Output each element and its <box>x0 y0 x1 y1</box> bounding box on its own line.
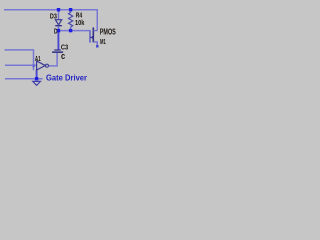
terminal dot source <box>96 45 98 47</box>
op-amp A1 triangle <box>37 61 46 70</box>
junction dot top-left <box>57 8 60 11</box>
junction dot top-right <box>69 8 72 11</box>
wire driver output to C3 bottom <box>49 53 57 66</box>
wire top rail <box>4 9 98 11</box>
wire drain vertical <box>96 10 98 31</box>
wire gate row <box>59 30 91 32</box>
wire left input 2 <box>5 64 37 66</box>
svg-text:D3: D3 <box>50 11 57 20</box>
svg-text:D: D <box>54 26 58 35</box>
diode D3 <box>55 20 61 25</box>
wire left input 3 <box>5 78 43 80</box>
junction dot gate-right <box>69 29 72 32</box>
ground <box>33 81 41 85</box>
wire C3 top lead <box>57 31 59 50</box>
transistor M1 drain stub <box>94 30 98 32</box>
transistor M1 channel bar <box>92 27 94 42</box>
junction dot gate-left <box>57 29 60 32</box>
svg-text:10k: 10k <box>75 18 85 27</box>
background <box>0 0 120 94</box>
svg-text:c: c <box>61 51 65 62</box>
svg-text:A1: A1 <box>35 54 41 63</box>
junction dot input node <box>32 64 34 66</box>
diode D3 lead <box>58 10 60 20</box>
wire left input 1 <box>5 50 34 70</box>
svg-text:Gate Driver: Gate Driver <box>46 74 87 83</box>
wire A1 output bottom lead <box>36 70 38 79</box>
transistor M1 gate bar <box>89 31 91 43</box>
svg-text:PMOS: PMOS <box>100 28 116 37</box>
transistor M1 body arrow <box>91 35 93 39</box>
capacitor C3 top plate <box>54 49 60 51</box>
op-amp A1 bubble <box>45 64 48 67</box>
capacitor C3 bottom plate <box>52 51 63 53</box>
resistor R4 <box>70 10 72 13</box>
junction dot ground node <box>35 77 38 80</box>
transistor M1 source stub <box>94 42 98 46</box>
svg-text:M1: M1 <box>100 37 106 46</box>
